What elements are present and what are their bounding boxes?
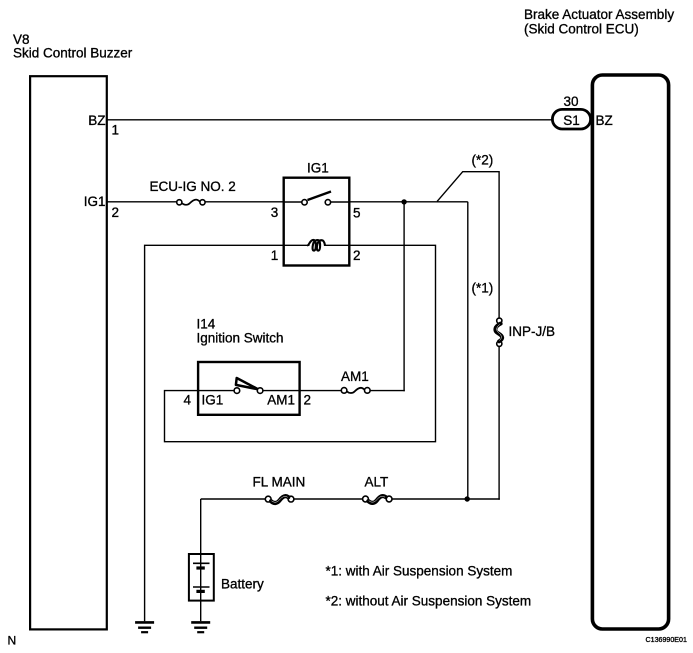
svg-text:IG1: IG1 [84, 194, 106, 209]
svg-text:IG1: IG1 [307, 161, 329, 176]
svg-text:(Skid Control ECU): (Skid Control ECU) [524, 22, 639, 37]
svg-text:2: 2 [304, 393, 312, 408]
svg-text:Ignition Switch: Ignition Switch [197, 331, 284, 346]
wire vertical drop (*1) path to charging wire [467, 202, 469, 499]
svg-text:1: 1 [112, 123, 120, 138]
svg-text:BZ: BZ [88, 113, 105, 128]
svg-text:AM1: AM1 [341, 369, 369, 384]
svg-text:30: 30 [564, 94, 579, 109]
svg-text:3: 3 [271, 205, 279, 220]
svg-text:Brake Actuator Assembly: Brake Actuator Assembly [524, 7, 674, 22]
wire between FL MAIN and ALT [294, 498, 363, 500]
svg-text:N: N [8, 634, 17, 648]
svg-text:Skid Control Buzzer: Skid Control Buzzer [13, 46, 133, 61]
battery [189, 554, 264, 601]
label Brake Actuator Assembly (Skid Control ECU) [524, 7, 674, 37]
svg-text:BZ: BZ [596, 113, 613, 128]
svg-text:1: 1 [271, 248, 279, 263]
connector S1 pin 30 [552, 94, 590, 129]
wire relay inner left to switch contact [284, 201, 302, 203]
relay IG1 box [284, 178, 350, 266]
wire ALT to verticals [392, 498, 500, 500]
fuse FL MAIN fusible link [253, 475, 306, 503]
pin 4 IG1 of ignition switch [183, 393, 223, 408]
label I14 / Ignition Switch [197, 317, 284, 346]
svg-text:INP-J/B: INP-J/B [509, 324, 556, 339]
svg-text:AM1: AM1 [267, 393, 295, 408]
junction node on pin 5 wire [401, 199, 406, 204]
pin IG1 2 of V8 [84, 194, 119, 220]
component box I14 Ignition Switch [198, 362, 300, 415]
wire BZ from V8 pin 1 to connector S1 [107, 119, 553, 121]
wire relay switch to pin 5 [331, 201, 350, 203]
wire battery to positive rail and through battery to ground [200, 499, 202, 621]
pin BZ 1 of V8 [88, 113, 119, 138]
svg-text:I14: I14 [197, 317, 216, 332]
svg-text:IG1: IG1 [202, 393, 224, 408]
svg-text:2: 2 [353, 248, 361, 263]
switch contact of ignition switch [234, 378, 263, 393]
svg-text:ALT: ALT [365, 475, 389, 490]
ground below battery [191, 622, 210, 632]
svg-text:*1: with Air Suspension System: *1: with Air Suspension System [326, 564, 513, 579]
svg-text:Battery: Battery [221, 577, 264, 592]
wire relay pin 2 loop to ignition switch pin 4 [165, 245, 436, 441]
pin AM1 2 of ignition switch [267, 393, 311, 408]
component box V8 Skid Control Buzzer [30, 76, 107, 629]
svg-text:(*1): (*1) [472, 281, 494, 296]
switch contact of relay IG1 [302, 192, 331, 206]
junction node on charging wire [465, 496, 470, 501]
wire diagonal branch (*2) [437, 172, 499, 319]
svg-text:ECU-IG NO. 2: ECU-IG NO. 2 [150, 179, 236, 194]
fuse ECU-IG NO. 2 [150, 179, 236, 205]
svg-text:4: 4 [183, 393, 191, 408]
wire relay coil inner right [324, 244, 349, 246]
wire battery positive rail [201, 498, 266, 500]
fuse AM1 [341, 369, 370, 393]
component box Brake Actuator Assembly (Skid Control ECU) [592, 75, 668, 629]
ground at relay coil return [135, 622, 154, 632]
wire relay pin 1 to ground [145, 245, 283, 621]
label V8 / Skid Control Buzzer [13, 32, 133, 61]
wire ignition inner left [198, 390, 234, 392]
wire ignition switch pin 2 to fuse AM1 [300, 390, 342, 392]
wire fuse AM1 to junction branch [370, 390, 405, 392]
wire ignition inner right [263, 390, 300, 392]
relay coil [307, 240, 325, 251]
wire from V8 pin 2 to fuse ECU-IG NO. 2 [107, 201, 177, 203]
wire from relay pin 5 to vertical drop [349, 201, 468, 203]
svg-text:FL MAIN: FL MAIN [253, 475, 306, 490]
connector INP-J/B [495, 318, 555, 346]
svg-text:S1: S1 [563, 113, 580, 128]
svg-text:*2: without Air Suspension Sys: *2: without Air Suspension System [326, 594, 532, 609]
wire from INP-J/B down to charging wire [498, 346, 500, 499]
svg-text:5: 5 [353, 206, 361, 221]
wire relay coil inner left [284, 244, 310, 246]
wire from fuse ECU-IG NO. 2 to relay IG1 pin 3 [205, 201, 284, 203]
svg-text:C136990E01: C136990E01 [646, 636, 687, 644]
wire branch down from junction to AM1 wire [403, 202, 405, 391]
svg-text:2: 2 [112, 205, 120, 220]
fuse ALT fusible link [363, 475, 392, 503]
svg-text:(*2): (*2) [472, 152, 494, 167]
